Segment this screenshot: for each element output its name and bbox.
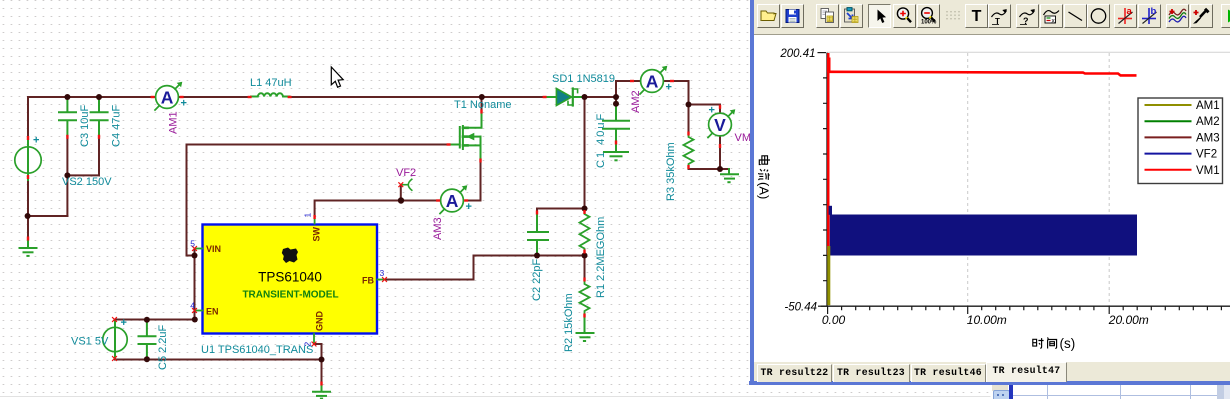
node C5 bottom	[144, 356, 150, 362]
wire FB pin to divider node	[385, 256, 585, 280]
y axis	[826, 53, 828, 307]
plot window bottom border	[749, 381, 1230, 385]
scrollbar grip button	[993, 390, 1010, 399]
svg-text:10.00m: 10.00m	[967, 313, 1007, 327]
svg-text:+: +	[121, 317, 127, 329]
svg-text:200.41: 200.41	[779, 48, 815, 60]
node VIN	[192, 253, 198, 259]
wire C1 node stub	[615, 97, 617, 105]
svg-text:5: 5	[190, 239, 195, 249]
svg-text:R1 2.2MEGOhm: R1 2.2MEGOhm	[595, 217, 607, 298]
svg-text:GND: GND	[315, 311, 325, 332]
button axis label tool	[988, 4, 1011, 28]
node C1/AM2	[613, 94, 619, 100]
button save	[781, 4, 804, 28]
leftover tan block	[992, 385, 1008, 391]
button zoom in	[893, 4, 916, 28]
ammeter AM1	[155, 82, 187, 110]
button run	[1221, 4, 1230, 28]
node C2 bottom	[534, 253, 540, 259]
svg-text:C4 47uF: C4 47uF	[111, 105, 123, 147]
node VS2 bottom	[25, 213, 31, 219]
svg-text:+: +	[709, 105, 715, 117]
SW pin lead	[314, 218, 316, 224]
svg-text:AM3: AM3	[1196, 132, 1220, 144]
ammeter AM2	[640, 66, 672, 94]
node VM1 gnd	[717, 166, 723, 172]
ground below VS2	[20, 242, 37, 256]
x axis ticks	[828, 306, 1222, 314]
wire VM1 bottom to node gnd	[689, 136, 721, 169]
IC U1 TPS61040 body	[203, 225, 378, 334]
dashed gridline 20.00m	[1108, 53, 1110, 306]
legend VM1	[1145, 169, 1192, 171]
wire L1 to diode SD1 anode (through node T1 drain)	[291, 96, 547, 98]
button circle tool	[1087, 4, 1110, 28]
voltmeter VM1	[708, 105, 735, 138]
mouse cursor	[331, 67, 343, 87]
toolbar strip	[754, 0, 1230, 35]
diode SD1 1N5819 schottky	[547, 89, 585, 106]
svg-text:20.00m: 20.00m	[1108, 313, 1149, 327]
wire VS1 bottom lead	[115, 358, 322, 360]
VF2 voltage probe	[401, 179, 412, 190]
VIN pin lead	[195, 248, 202, 250]
legend VF2	[1145, 153, 1192, 155]
svg-text:EN: EN	[206, 307, 219, 317]
svg-text:VF2: VF2	[1196, 149, 1217, 161]
red pin ticks	[27, 80, 721, 386]
ground below C1	[604, 145, 628, 161]
curve VM1 red output line	[830, 72, 1137, 76]
button legend tool	[1040, 4, 1063, 28]
svg-text:R2 15kOhm: R2 15kOhm	[563, 293, 575, 352]
wire node to ground stub VM1	[720, 168, 729, 170]
node C3/C4 bottom	[64, 172, 70, 178]
svg-text:1: 1	[303, 213, 313, 218]
svg-text:AM1: AM1	[168, 111, 180, 134]
node C3 top	[64, 94, 70, 100]
svg-text:VS1 5V: VS1 5V	[71, 336, 109, 348]
svg-text:V: V	[714, 115, 726, 135]
voltage source VS2	[15, 140, 41, 180]
wire VF2 probe to node	[400, 187, 402, 201]
tab bar	[754, 362, 1230, 381]
node R3/VM1	[686, 102, 692, 108]
voltage source VS1	[103, 322, 127, 358]
curve VF2 navy block	[830, 215, 1137, 256]
svg-text:+: +	[33, 135, 39, 147]
wire VIN pin down to node	[194, 250, 196, 256]
legend box	[1138, 98, 1223, 184]
wire VS1 top lead	[114, 320, 116, 323]
wire SD1 node down to R1/C2 node	[537, 97, 585, 209]
svg-text:T1 Noname: T1 Noname	[454, 99, 511, 111]
wire T1 drain to top rail node	[481, 97, 483, 111]
node R1/C2 top	[582, 206, 588, 212]
svg-text:3: 3	[380, 268, 385, 278]
capacitor C5	[139, 321, 156, 359]
wire R1 bottom node to R2 top	[584, 256, 586, 279]
capacitor C2	[528, 216, 548, 255]
wire T1 source down to AM3 right	[467, 162, 481, 201]
x axis title 时间(s)	[1033, 336, 1075, 351]
plot window left border	[750, 0, 754, 385]
node EN corner	[192, 317, 198, 323]
svg-text:VM1: VM1	[1196, 165, 1220, 177]
curve AM1 olive vertical	[827, 246, 830, 305]
button grid (disabled)	[941, 4, 964, 28]
button cursor b	[1138, 4, 1161, 28]
svg-text:TPS61040: TPS61040	[258, 270, 322, 285]
svg-text:AM2: AM2	[1196, 116, 1220, 128]
wire VS2 bottom lead	[27, 180, 29, 237]
svg-text:0.00: 0.00	[822, 313, 846, 327]
button open file	[757, 4, 780, 28]
GND pin lead	[313, 334, 315, 344]
svg-text:(s): (s)	[1060, 336, 1076, 351]
capacitor C4	[91, 97, 108, 136]
svg-text:AM3: AM3	[432, 217, 444, 240]
legend AM1	[1145, 104, 1192, 106]
svg-text:AM2: AM2	[630, 90, 642, 113]
svg-text:AM1: AM1	[1196, 100, 1220, 112]
svg-text:U1 TPS61040_TRANS: U1 TPS61040_TRANS	[201, 344, 313, 356]
node VF2	[398, 197, 404, 203]
svg-text:C5 2.2uF: C5 2.2uF	[157, 324, 169, 370]
node R1 bottom	[582, 253, 588, 259]
button probe	[1190, 4, 1213, 28]
ammeter AM3	[440, 185, 472, 213]
wire node down to EN pin and VS1 top	[116, 256, 195, 320]
svg-text:4: 4	[190, 301, 195, 311]
ground at VM1	[721, 169, 738, 182]
svg-text:+: +	[181, 98, 187, 110]
EN pin lead	[195, 310, 202, 312]
ground below IC GND pin	[313, 385, 330, 399]
svg-text:C3 10uF: C3 10uF	[79, 105, 91, 147]
svg-text:(A): (A)	[757, 182, 772, 199]
svg-text:-50.44: -50.44	[784, 302, 817, 314]
wire GND pin to bottom rail and ground	[314, 344, 322, 382]
resistor R1	[580, 210, 590, 255]
FB pin lead	[378, 279, 385, 281]
button copy	[816, 4, 839, 28]
node C1 lead	[613, 101, 619, 107]
wire R3 bottom stub	[688, 168, 690, 170]
wire AM3 left to SW pin (through VF2 node)	[315, 201, 441, 217]
resistor R2	[580, 282, 590, 314]
button add curves	[1166, 4, 1189, 28]
wire bottom rail VS2 to C3 branch	[28, 215, 68, 217]
plot area	[754, 35, 1230, 362]
svg-text:VS2 150V: VS2 150V	[62, 176, 112, 188]
schematic window bottom edge	[0, 396, 990, 398]
svg-text:C1 40uF: C1 40uF	[595, 112, 607, 168]
node GND rail	[319, 357, 325, 363]
wire top rail VS2 to AM1	[28, 97, 156, 147]
capacitor C1	[603, 105, 629, 142]
y axis title 电流(A)	[757, 156, 772, 200]
svg-text:2: 2	[303, 342, 313, 347]
svg-text:R3 35kOhm: R3 35kOhm	[665, 142, 677, 201]
x axis	[821, 305, 1230, 307]
button select arrow (pressed)	[868, 4, 891, 28]
TI logo	[282, 248, 298, 264]
wire T1 gate to VIN node	[187, 145, 449, 256]
ground below R2	[577, 319, 594, 342]
transistor T1 NMOS	[452, 113, 482, 162]
svg-text:+: +	[466, 201, 472, 213]
wire C3 bottom down to rail	[66, 140, 68, 217]
svg-text:SW: SW	[312, 226, 322, 241]
wire node to VM1 top	[689, 105, 721, 114]
svg-text:A: A	[646, 71, 659, 91]
svg-text:SD1 1N5819: SD1 1N5819	[552, 73, 615, 85]
wire node to AM2 left	[616, 81, 641, 97]
window divider bar	[1009, 385, 1013, 399]
svg-text:A: A	[161, 87, 174, 107]
wire AM2 right to node R3/VM1	[664, 81, 689, 105]
capacitor C3	[59, 97, 76, 136]
curve VM1 red vertical spike	[827, 53, 829, 255]
y axis ticks	[818, 53, 828, 307]
node SD1 cathode	[582, 94, 588, 100]
table window	[1013, 385, 1230, 399]
svg-text:VF2: VF2	[396, 167, 416, 179]
svg-text:FB: FB	[362, 276, 374, 286]
wire SD1 cathode to node C1/AM2	[585, 96, 617, 98]
legend AM3	[1145, 136, 1192, 138]
wire AM1 to L1	[179, 96, 250, 98]
svg-text:VIN: VIN	[206, 244, 221, 254]
wire node to C2 top lead	[536, 209, 538, 216]
node C4 top	[96, 94, 102, 100]
node C5 top	[144, 317, 150, 323]
svg-text:A: A	[446, 191, 459, 211]
svg-text:C2 22pF: C2 22pF	[531, 259, 543, 301]
top gridline	[827, 51, 1230, 53]
wire C4 bottom to node C3	[68, 140, 99, 176]
button paste	[840, 4, 863, 28]
button text tool	[965, 4, 988, 28]
resistor R3	[684, 135, 694, 168]
button line tool	[1064, 4, 1087, 28]
button cursor a	[1114, 4, 1137, 28]
button curve query tool	[1016, 4, 1039, 28]
red X pin-end marks	[113, 183, 403, 361]
node T1 drain	[479, 94, 485, 100]
button zoom out 100%	[917, 4, 940, 28]
svg-text:+: +	[666, 82, 672, 94]
legend AM2	[1145, 120, 1192, 122]
dashed gridline 10.00m	[967, 53, 969, 306]
inductor L1	[251, 93, 290, 96]
wire node to R3 top	[688, 105, 690, 133]
svg-text:L1 47uH: L1 47uH	[250, 77, 292, 89]
svg-text:TRANSIENT-MODEL: TRANSIENT-MODEL	[242, 290, 338, 301]
